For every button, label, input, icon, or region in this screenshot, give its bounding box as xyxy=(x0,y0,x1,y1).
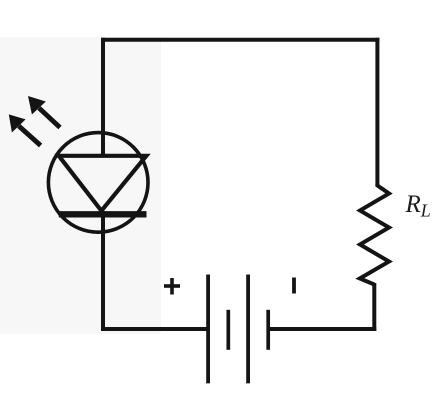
wire: top horizontal xyxy=(101,38,379,42)
battery B1: negative short plate xyxy=(266,310,270,350)
wire: LED cathode down to bottom rail xyxy=(101,211,105,331)
battery B1: positive long plate xyxy=(206,275,210,384)
wire: right vertical (top corner to resistor) xyxy=(375,38,379,186)
battery B1: short plate 1 xyxy=(226,310,230,350)
LED emission arrow 1 (upper): head xyxy=(28,96,46,115)
wire: bottom rail right (battery - to resistor) xyxy=(268,327,376,331)
scan background tint xyxy=(0,37,161,334)
LED D1: circle xyxy=(48,133,148,233)
LED D1: triangle (anode) xyxy=(59,156,147,211)
LED emission arrow 2 (lower): head xyxy=(9,114,26,132)
battery label: minus mark (vertical tick) xyxy=(292,278,296,294)
wire: left vertical (top corner to LED anode) xyxy=(101,38,105,157)
wire: bottom rail left (LED to battery +) xyxy=(101,327,207,331)
resistor RL: zigzag body xyxy=(360,184,389,285)
svg-text:L: L xyxy=(420,201,431,221)
LED emission arrow 2 (lower): shaft xyxy=(19,126,41,146)
LED emission arrow 1 (upper): shaft xyxy=(39,108,60,128)
battery label: plus sign horizontal xyxy=(164,284,180,288)
battery label: plus sign vertical xyxy=(170,278,174,295)
LED D1: cathode bar xyxy=(59,211,147,217)
wire: resistor bottom lead xyxy=(372,283,376,331)
svg-text:R: R xyxy=(405,191,421,218)
battery B1: long plate 2 xyxy=(246,275,250,384)
